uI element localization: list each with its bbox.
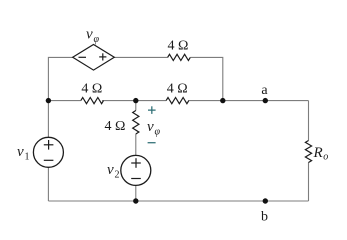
svg-text:4 Ω: 4 Ω (167, 82, 188, 97)
junction node at center rail / middle row (133, 98, 138, 103)
label Ro (313, 145, 329, 163)
plus sign inside dependent source (99, 53, 106, 60)
junction node at center rail / bottom row (133, 198, 138, 203)
resistor 4 ohm (middle right) (166, 98, 189, 104)
wire middle row: right 4 ohm resistor through node a to top-right corner (188, 100, 308, 102)
label 4 ohm for vertical resistor (105, 119, 126, 134)
svg-text:4 Ω: 4 Ω (81, 82, 102, 97)
svg-text:4 Ω: 4 Ω (168, 39, 189, 54)
svg-text:4 Ω: 4 Ω (105, 119, 126, 134)
svg-text:o: o (323, 152, 328, 163)
wire right rail: Ro down to bottom-right corner (308, 162, 310, 201)
svg-text:R: R (313, 145, 323, 161)
wire bottom row from bottom-left corner to bottom-right corner (48, 200, 308, 202)
resistor 4 ohm (top) (168, 54, 191, 60)
svg-text:φ: φ (94, 34, 100, 45)
svg-text:b: b (261, 210, 268, 225)
wire from dependent source right terminal to top 4 ohm resistor (114, 56, 167, 58)
wire left rail from middle node down to v1 plus terminal (47, 101, 49, 138)
teal label v-phi beside vertical resistor (147, 119, 161, 138)
svg-text:φ: φ (155, 127, 161, 138)
node a terminal dot (263, 98, 268, 103)
wire center rail: center node down to vertical 4 ohm resistor (135, 101, 137, 111)
voltage source v2 (circle) (121, 155, 151, 185)
minus sign inside dependent source (79, 56, 87, 58)
label node b (261, 210, 268, 225)
svg-text:2: 2 (115, 170, 120, 181)
wire middle row: left 4 ohm resistor to right 4 ohm resistor (through center node) (102, 100, 166, 102)
wire center rail: vertical 4 ohm resistor to v2 plus terminal (135, 134, 137, 155)
minus sign inside v2 (131, 178, 141, 180)
wire right rail: top-right corner down to Ro (308, 101, 310, 141)
wire from v1 minus terminal down to bottom-left corner (47, 167, 49, 201)
label node a (261, 83, 268, 98)
label 4 ohm for top resistor (168, 39, 189, 54)
svg-text:v: v (147, 119, 154, 135)
svg-text:1: 1 (25, 152, 30, 163)
wire from dependent source left terminal left and down to node at left rail (48, 57, 72, 100)
teal minus below v-phi voltage label (148, 142, 156, 143)
voltage source v1 (circle) (33, 137, 63, 167)
svg-text:v: v (107, 162, 114, 178)
resistor 4 ohm (middle left) (81, 98, 104, 104)
minus sign inside v1 (44, 159, 54, 161)
junction node at left rail / middle row (46, 98, 51, 103)
svg-text:v: v (86, 27, 93, 43)
wire middle row: left node to left 4 ohm resistor (48, 100, 80, 102)
label v-phi above dependent source (86, 27, 100, 46)
label v1 (17, 144, 30, 163)
resistor Ro (vertical right) (305, 141, 311, 163)
svg-text:a: a (261, 83, 268, 98)
node b terminal dot (263, 198, 268, 203)
teal plus above v-phi voltage label (148, 106, 156, 114)
label 4 ohm for middle-left resistor (81, 82, 102, 97)
dependent source v-phi (diamond) (73, 45, 115, 71)
plus sign inside v2 (131, 158, 141, 168)
junction node where top branch meets middle row (220, 98, 225, 103)
wire center rail: v2 minus terminal down to bottom node (135, 185, 137, 201)
wire from top 4 ohm resistor right end, right and down to middle-row node (190, 57, 223, 100)
svg-text:v: v (17, 144, 24, 160)
resistor 4 ohm (vertical center) (133, 111, 139, 135)
plus sign inside v1 (44, 140, 54, 150)
label 4 ohm for middle-right resistor (167, 82, 188, 97)
label v2 (107, 162, 120, 181)
